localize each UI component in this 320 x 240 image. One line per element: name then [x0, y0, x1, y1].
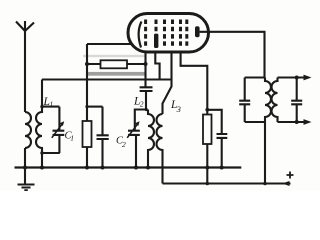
screen lead from tube [181, 51, 208, 115]
svg-text:2: 2 [140, 100, 144, 109]
arrowhead B+ [282, 181, 290, 186]
resistor cathode bias (vertical) [83, 121, 92, 147]
node screen C bottom [220, 166, 224, 170]
ghost smudge line upper [83, 55, 145, 57]
node cathode network [85, 105, 88, 108]
anode bar [195, 26, 200, 37]
wire tank top [42, 106, 59, 108]
node screen network [205, 108, 209, 112]
grid3 lead to L3 [163, 51, 172, 114]
grid column 3 [163, 20, 166, 46]
svg-text:1: 1 [70, 134, 74, 143]
node L2 top [145, 108, 148, 111]
wire grid bus (L1 top to G3 lead) [42, 78, 172, 80]
node cathode/grid-leak junction [85, 62, 89, 66]
B+ bus [163, 182, 291, 184]
IF transformer primary loop top wire [245, 76, 265, 78]
svg-text:3: 3 [176, 104, 181, 114]
capacitor IF primary [239, 78, 250, 123]
node IF secondary cap top [295, 76, 299, 80]
node screen R bottom [205, 166, 209, 170]
cathode arc inside tube [139, 22, 142, 48]
ghost smudge line lower [88, 72, 146, 76]
node L1 bottom [40, 166, 44, 170]
capacitor cathode bypass [97, 107, 109, 168]
resistor grid leak (horizontal) [87, 63, 146, 65]
wire below screen resistor [206, 144, 208, 184]
capacitor C1 [53, 107, 65, 153]
wire C2 branch top [135, 110, 146, 131]
coil L2 [148, 110, 154, 168]
wire grid1 lead [144, 51, 146, 87]
capacitor C2 (padder) [128, 131, 140, 168]
resistor screen dropper (vertical) [203, 115, 212, 145]
wire cathode riser [87, 44, 132, 168]
wire screen bypass branch [207, 110, 221, 134]
node screen to B+ [206, 182, 210, 186]
coil IF primary [265, 78, 271, 184]
arrow of variable capacitor C2 [127, 125, 137, 138]
node tank bottom [40, 151, 43, 154]
IF primary bottom wire [245, 121, 265, 123]
label L3 [170, 99, 181, 114]
ground bus [15, 166, 242, 168]
antenna [16, 21, 34, 112]
tube envelope U1 [128, 14, 209, 53]
capacitor grid (fixed) [140, 87, 153, 109]
coil L1 [36, 80, 42, 168]
coil IF secondary [272, 78, 278, 123]
capacitor IF secondary [291, 78, 302, 123]
node cathode C bottom [101, 166, 105, 170]
ground [18, 185, 35, 191]
label C1 [65, 131, 75, 143]
coil L3 [157, 114, 163, 184]
node IF primary to B+ [263, 182, 267, 186]
wire tank bottom [42, 152, 60, 154]
node C2 bottom [134, 166, 138, 170]
antenna coil (primary winding) [25, 112, 31, 148]
IF secondary top wire with output arrow [278, 76, 306, 78]
node IF secondary cap bottom [295, 120, 299, 124]
wire cathode network top [87, 106, 103, 108]
grid column 2 with cathode bar [155, 20, 158, 32]
node grid junction [144, 62, 148, 66]
grid column 5 [179, 20, 182, 46]
label L2 [133, 96, 144, 109]
node antenna/ground [23, 166, 27, 170]
svg-text:2: 2 [122, 140, 126, 149]
grid column 1 [144, 20, 147, 46]
label + [287, 172, 294, 179]
wire antenna coil bottom to ground bus [24, 148, 26, 184]
capacitor screen bypass [217, 134, 228, 168]
label C2 [116, 136, 126, 150]
grid column 6 [185, 20, 188, 46]
node L2 bottom [146, 166, 150, 170]
grid column 4 [171, 20, 174, 46]
arrow of variable capacitor C1 [52, 125, 62, 138]
node cathode R bottom [85, 166, 89, 170]
node tank top [40, 105, 43, 108]
IF secondary bottom wire with output arrow [278, 121, 306, 123]
wire anode to IF transformer [200, 32, 265, 78]
label L1 [43, 96, 54, 109]
cathode lead from tube (jog) [155, 51, 159, 80]
